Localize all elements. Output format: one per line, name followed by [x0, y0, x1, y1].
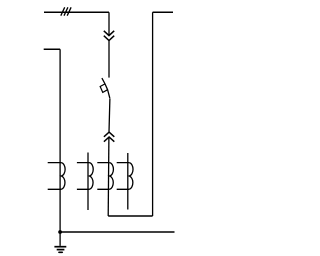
wire: left branch top stub [44, 48, 60, 50]
wire: right riser [152, 12, 154, 216]
wire: vertical from feeder corner [108, 12, 110, 35]
wire: left vertical [59, 49, 61, 246]
wire: top right stub [153, 11, 173, 13]
wire: chevron to breaker [108, 41, 110, 78]
ground [54, 247, 66, 253]
winding L1 [48, 163, 65, 190]
wire: breaker to lower chevron [108, 98, 111, 132]
junction dot [58, 230, 62, 234]
drawout contact bottom (double chevron up) [104, 132, 114, 142]
wire: top feeder horizontal [44, 11, 109, 13]
drawout contact top (double chevron down) [104, 31, 114, 41]
circuit breaker square [100, 84, 107, 93]
winding L2 [77, 153, 93, 211]
wire: bottom jog to right riser [108, 215, 152, 217]
three-phase slash marks [61, 7, 71, 15]
winding L3 [97, 163, 113, 190]
circuit breaker blade [102, 78, 110, 98]
wire: center vertical through winding L3 [107, 137, 110, 216]
winding L4 [117, 153, 133, 210]
wire: ground bus horizontal [60, 231, 174, 233]
